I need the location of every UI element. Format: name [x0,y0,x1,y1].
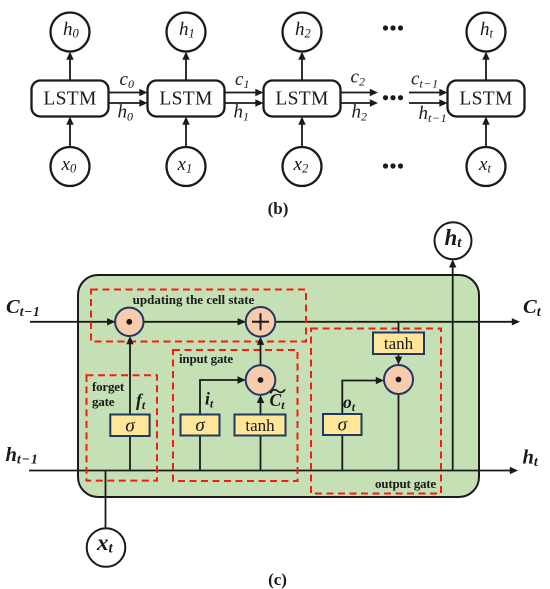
svg-text:LSTM: LSTM [159,89,212,110]
svg-text:LSTM: LSTM [275,89,328,110]
svg-text:forget: forget [92,379,125,394]
svg-text:tanh: tanh [245,416,275,435]
svg-text:input gate: input gate [179,351,233,366]
svg-text:(c): (c) [268,570,287,589]
svg-text:σ: σ [338,415,348,436]
svg-text:LSTM: LSTM [459,89,512,110]
svg-text:gate: gate [92,394,115,409]
svg-text:LSTM: LSTM [43,89,96,110]
svg-text:σ: σ [195,415,205,436]
svg-text:tanh: tanh [384,334,414,353]
svg-text:(b): (b) [268,199,289,218]
svg-text:σ: σ [125,416,135,437]
svg-text:updating the cell state: updating the cell state [133,292,255,307]
svg-text:output gate: output gate [375,476,436,491]
